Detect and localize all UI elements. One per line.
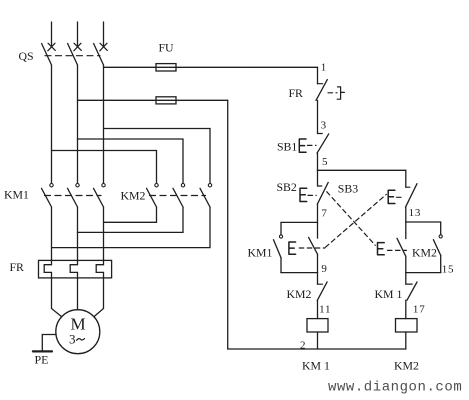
svg-text:15: 15	[442, 264, 455, 276]
coil KM1	[307, 319, 328, 332]
svg-text:KM 1: KM 1	[375, 287, 403, 301]
wire control return vertical	[227, 100, 229, 349]
pushbutton SB3 NC contact (in KM1 branch)	[289, 222, 325, 254]
svg-text:5: 5	[322, 156, 328, 168]
PE ground bar	[33, 350, 52, 352]
wire coil KM1 to bottom	[317, 332, 319, 349]
KM1 linkage dashed	[45, 195, 102, 197]
svg-text:www.diangon.com: www.diangon.com	[328, 380, 462, 396]
FR heater phase C with detour	[94, 207, 104, 317]
contactor KM1 main contact pole 1	[42, 184, 54, 208]
contactor KM2 main contact pole 2	[173, 184, 185, 208]
FR heater phase A with detour	[44, 207, 62, 317]
svg-text:SB3: SB3	[338, 182, 358, 196]
contactor KM2 main contact pole 3	[200, 184, 212, 208]
wire KM2 pole3 bottom to phase A	[52, 207, 211, 248]
svg-text:KM2: KM2	[287, 287, 312, 301]
svg-text:1: 1	[321, 62, 327, 74]
svg-text:FR: FR	[289, 86, 304, 100]
contact KM2 auxiliary (self hold, NO)	[433, 222, 442, 273]
wire node7 horizontal	[281, 221, 318, 223]
SB2 linkage diagonal dashed to right branch	[327, 192, 376, 246]
contactor KM1 main contact pole 3	[94, 184, 106, 208]
wire SB2 to node 7	[317, 204, 319, 222]
pushbutton SB1 (stop, NC)	[299, 134, 328, 154]
QS linkage dashed	[45, 55, 100, 57]
wire fuse line 2 (phase B to return)	[78, 99, 228, 101]
wire node1 to FR contact	[317, 67, 319, 83]
svg-text:2: 2	[300, 340, 306, 352]
wire phase C vertical (QS to KM1)	[103, 65, 105, 183]
wire to coil KM1	[317, 301, 319, 319]
svg-text:SB2: SB2	[277, 180, 297, 194]
SB3 linkage diagonal dashed	[325, 194, 386, 247]
wire fuse line 1 (phase C to control node 1)	[104, 66, 318, 68]
switch QS pole 2 blade	[68, 44, 78, 66]
svg-text:3: 3	[69, 331, 76, 346]
KM2 linkage dashed	[150, 195, 206, 197]
contactor KM2 main contact pole 1	[147, 184, 159, 208]
contact KM1 interlock (NC)	[406, 273, 417, 301]
FR heater phase B with detour	[70, 207, 77, 310]
svg-text:FR: FR	[10, 260, 25, 274]
wire to node 15	[405, 256, 407, 272]
svg-text:KM2: KM2	[412, 246, 437, 260]
svg-text:KM1: KM1	[248, 246, 273, 260]
wire node15 horizontal	[406, 272, 441, 274]
fuse FU1	[156, 64, 176, 71]
wire to node 9	[317, 254, 319, 272]
contact KM2 interlock (NC)	[317, 273, 327, 301]
svg-text:3: 3	[321, 120, 327, 132]
wire phase C to KM2 pole3 top	[104, 129, 211, 184]
wire phase A vertical (QS to KM1)	[51, 65, 53, 183]
wire phase B vertical (QS to KM1)	[77, 65, 79, 183]
svg-text:QS: QS	[19, 49, 34, 63]
wire node9 horizontal	[281, 272, 318, 274]
pushbutton SB3 (reverse start, NO)	[388, 170, 417, 207]
incoming phase L2 arrow	[74, 22, 82, 51]
svg-text:KM 1: KM 1	[302, 359, 330, 373]
wire SB1 to node 5	[317, 153, 319, 170]
motor M 3~	[56, 310, 100, 354]
wire phase A to KM2 pole1 top	[52, 151, 157, 184]
wire bottom horizontal	[228, 348, 406, 350]
svg-text:9: 9	[321, 263, 327, 275]
relay contact FR (NC)	[316, 80, 344, 101]
wire SB3 to node 13	[405, 207, 407, 222]
svg-text:7: 7	[321, 207, 327, 219]
incoming phase L1 arrow	[48, 22, 56, 51]
wire coil KM2 to bottom	[405, 332, 407, 349]
pushbutton SB2 NC contact (in KM2 branch)	[378, 222, 407, 256]
pushbutton SB2 (forward start, NO)	[300, 170, 328, 204]
wire node13 horizontal	[406, 221, 441, 223]
coil KM2	[396, 319, 418, 332]
svg-text:17: 17	[413, 303, 426, 315]
wire KM2 pole1 bottom to phase C	[104, 207, 157, 222]
switch QS pole 1 blade	[42, 44, 52, 66]
thermal relay FR box	[39, 260, 112, 278]
wire KM2 pole2 bottom to phase B	[78, 207, 184, 232]
svg-text:KM1: KM1	[4, 188, 29, 202]
incoming phase L3 arrow	[100, 22, 108, 51]
switch QS pole 3 blade	[94, 44, 104, 66]
svg-text:KM2: KM2	[394, 359, 419, 373]
svg-text:FU: FU	[159, 41, 175, 55]
svg-text:13: 13	[409, 207, 422, 219]
wire FR to SB1	[317, 100, 319, 133]
PE ground wire	[42, 335, 56, 352]
contact KM1 auxiliary (self hold, NO)	[274, 222, 283, 272]
contactor KM1 main contact pole 2	[68, 184, 80, 208]
svg-text:PE: PE	[35, 352, 49, 366]
svg-text:SB1: SB1	[277, 140, 297, 154]
wire to coil KM2	[405, 300, 407, 318]
svg-text:11: 11	[319, 303, 331, 315]
wire phase B to KM2 pole2 top	[78, 139, 184, 183]
wire node5 horizontal	[318, 169, 406, 171]
fuse FU2	[156, 97, 176, 104]
svg-text:KM2: KM2	[121, 189, 146, 203]
